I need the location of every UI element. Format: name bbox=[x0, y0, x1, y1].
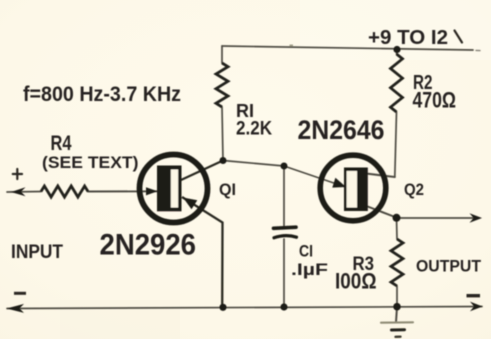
svg-text:OUTPUT: OUTPUT bbox=[416, 257, 482, 276]
svg-text:f=800 Hz-3.7 KHz: f=800 Hz-3.7 KHz bbox=[23, 83, 181, 106]
svg-text:2N2646: 2N2646 bbox=[298, 115, 385, 145]
svg-text:I00Ω: I00Ω bbox=[335, 269, 377, 294]
svg-text:+9 TO I2: +9 TO I2 bbox=[368, 26, 448, 49]
svg-text:.IµF: .IµF bbox=[291, 260, 328, 279]
svg-text:INPUT: INPUT bbox=[11, 241, 63, 263]
svg-text:470Ω: 470Ω bbox=[413, 88, 457, 113]
svg-text:2.2K: 2.2K bbox=[236, 119, 272, 140]
svg-text:R4: R4 bbox=[51, 132, 72, 155]
svg-text:QI: QI bbox=[219, 181, 236, 199]
svg-text:2N2926: 2N2926 bbox=[100, 229, 197, 262]
svg-text:(SEE TEXT): (SEE TEXT) bbox=[42, 154, 139, 172]
svg-text:Q2: Q2 bbox=[404, 181, 424, 199]
svg-text:CI: CI bbox=[299, 242, 313, 261]
